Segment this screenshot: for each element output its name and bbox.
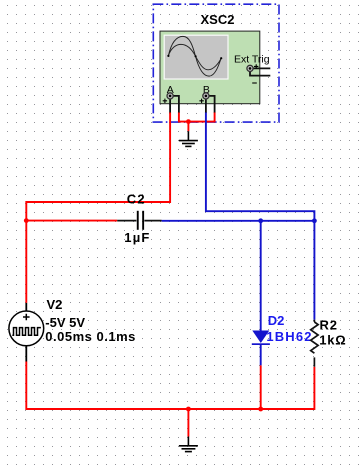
svg-text:1kΩ: 1kΩ	[319, 333, 346, 348]
svg-text:C2: C2	[127, 192, 146, 207]
svg-text:0.05ms 0.1ms: 0.05ms 0.1ms	[45, 329, 136, 344]
svg-text:1µF: 1µF	[124, 230, 150, 245]
svg-text:D2: D2	[268, 313, 285, 328]
svg-text:V2: V2	[47, 297, 63, 312]
svg-text:Ext Trig: Ext Trig	[234, 54, 270, 66]
svg-text:XSC2: XSC2	[201, 12, 235, 27]
svg-text:-5V 5V: -5V 5V	[45, 315, 85, 330]
svg-text:1BH62: 1BH62	[266, 329, 312, 344]
svg-text:R2: R2	[320, 317, 338, 332]
